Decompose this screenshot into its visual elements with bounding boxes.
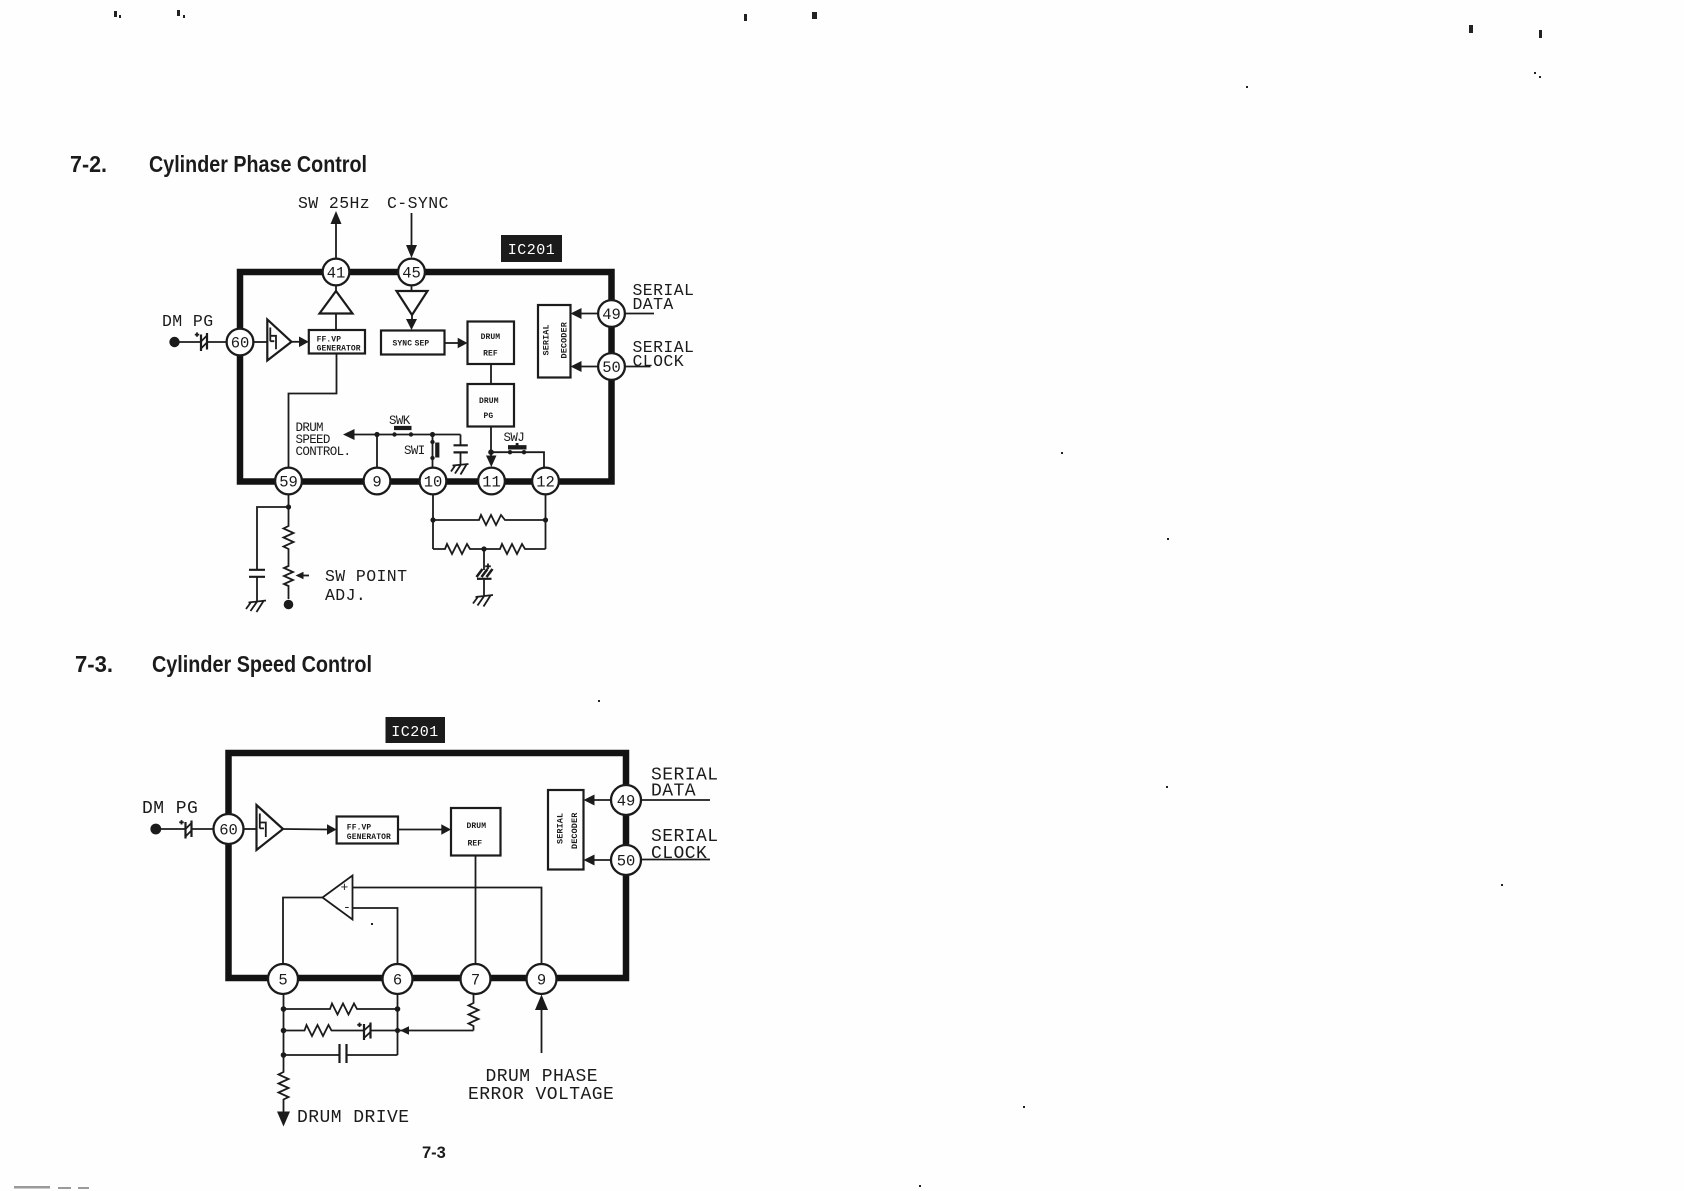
svg-text:49: 49: [602, 306, 621, 324]
capacitor (pin59 branch): [249, 570, 265, 577]
svg-text:6: 6: [393, 972, 402, 990]
wire dot to pin 9: [376, 435, 378, 468]
svg-text:SWK: SWK: [389, 414, 411, 428]
switch SWK: [392, 428, 413, 437]
terminal dot DM PG: [169, 337, 179, 347]
wire cap to pin 60: [207, 341, 227, 343]
svg-text:DRUM PHASE: DRUM PHASE: [486, 1067, 599, 1087]
arrow into FF.VP generator: [327, 824, 337, 835]
junction dot row B center: [481, 546, 486, 551]
wire inverter to sync sep: [411, 315, 413, 322]
svg-text:REF: REF: [468, 840, 483, 849]
pin 60 (d2): [214, 814, 244, 844]
amp A1 (pulse amp): [267, 320, 291, 361]
wire pin5 down: [283, 993, 285, 1055]
pin 7: [461, 964, 491, 994]
wire pin60 to amp A2: [243, 828, 257, 830]
pot wiper arrow: [301, 575, 309, 577]
switch SWJ: [491, 443, 544, 467]
wire pin50 to serial decoder: [591, 859, 612, 861]
block SERIAL DECODER (vertical text): [548, 790, 584, 870]
svg-text:7: 7: [471, 972, 480, 990]
pin 41: [323, 259, 350, 286]
amp A2 (pulse amp): [257, 805, 284, 850]
pin 60: [227, 329, 254, 356]
wire FF.VP to DRUM REF: [398, 829, 443, 831]
junction dot row A right: [543, 517, 548, 522]
svg-text:FF.VP: FF.VP: [347, 824, 372, 833]
svg-text:SYNC: SYNC: [393, 340, 413, 349]
svg-text:DM PG: DM PG: [162, 312, 214, 331]
junction dot row3 left: [281, 1052, 287, 1058]
wire DRUM PHASE ERROR VOLTAGE to pin9: [541, 1008, 543, 1053]
wire pin41 to buffer: [335, 286, 337, 292]
svg-text:SW 25Hz: SW 25Hz: [298, 194, 370, 213]
pin 49 (d2): [611, 785, 641, 815]
svg-text:GENERATOR: GENERATOR: [347, 833, 391, 842]
svg-text:45: 45: [402, 265, 421, 283]
switch SWI (vertical): [430, 435, 437, 468]
svg-text:9: 9: [537, 972, 546, 990]
pin 11: [478, 468, 505, 495]
svg-text:DATA: DATA: [651, 782, 696, 802]
arrow into SYNC SEP: [406, 319, 417, 330]
net SERIAL DATA stub: [625, 313, 654, 315]
pin 9 (d2): [527, 964, 557, 994]
svg-text:DECODER: DECODER: [560, 321, 570, 358]
block SERIAL DECODER (vertical text): [538, 305, 571, 378]
wire cap to ground: [483, 579, 485, 596]
svg-text:CLOCK: CLOCK: [651, 844, 707, 864]
svg-text:Cylinder Phase Control: Cylinder Phase Control: [149, 151, 367, 177]
svg-text:DRUM: DRUM: [479, 397, 499, 406]
wire pin41 to SW 25Hz: [335, 222, 337, 258]
IC201 name plate: [501, 235, 562, 262]
IC201 outline (IC body): [229, 753, 627, 978]
wire pin50 to serial decoder: [578, 366, 598, 368]
junction dot pin11 node: [488, 449, 494, 455]
pin 10: [420, 468, 447, 495]
svg-text:5: 5: [278, 972, 287, 990]
svg-text:SERIAL: SERIAL: [556, 813, 566, 844]
ground (pin59 cap): [246, 601, 266, 613]
row B wire with resistor R (left): [433, 544, 484, 554]
wire DRUM REF to pin 7: [475, 856, 477, 966]
svg-text:PG: PG: [484, 412, 494, 421]
block DRUM REF: [468, 322, 515, 365]
capacitor C (coupling, polarized): [179, 820, 191, 838]
wire op-amp output to pin 5: [283, 898, 323, 966]
arrow down DRUM DRIVE: [277, 1112, 290, 1127]
svg-text:IC201: IC201: [508, 242, 556, 259]
svg-text:DRUM: DRUM: [467, 822, 487, 831]
op-amp U1: [323, 876, 353, 920]
arrow down into pin45: [406, 245, 417, 258]
capacitor C (coupling, polarized): [195, 332, 207, 351]
svg-text:SWJ: SWJ: [504, 431, 525, 445]
net SERIAL CLOCK stub: [641, 859, 710, 861]
IC201 name plate: [386, 717, 446, 743]
block SYNC SEP: [381, 331, 445, 355]
arrow into pin6 net (row2): [400, 1026, 409, 1034]
svg-text:Cylinder Speed Control: Cylinder Speed Control: [152, 651, 372, 677]
resistor R (drum drive) vertical: [279, 1070, 289, 1112]
svg-text:SWI: SWI: [404, 444, 425, 458]
svg-text:DECODER: DECODER: [570, 812, 580, 849]
svg-text:ADJ.: ADJ.: [325, 586, 366, 605]
terminal dot DM PG: [150, 824, 161, 835]
wire pin10 down: [432, 495, 434, 550]
wire pin45 to inverter: [411, 286, 413, 292]
wire pin49 to serial decoder: [578, 313, 598, 315]
row2 wire to pin7 branch: [371, 1030, 474, 1032]
row A wire + resistor R (10-12): [433, 515, 547, 525]
svg-text:7-3.: 7-3.: [75, 651, 113, 677]
wire DRUM PG to node: [490, 427, 492, 453]
wire FF.VP gen down to pin59: [289, 354, 337, 468]
waveform glyph inside A1: [270, 328, 276, 350]
block DRUM PG: [468, 384, 515, 427]
arrow into decoder (data): [584, 795, 595, 806]
junction dot row2 left: [281, 1028, 287, 1034]
pin 49: [598, 300, 625, 327]
svg-text:50: 50: [617, 853, 636, 871]
svg-text:ERROR VOLTAGE: ERROR VOLTAGE: [468, 1085, 614, 1105]
resistor R (pin59) vertical: [284, 524, 294, 562]
junction dot SWI branch: [430, 432, 435, 437]
wire op-amp + input from pin 9: [353, 888, 542, 966]
row2 trimmer capacitor (+): [357, 1023, 370, 1041]
svg-text:-: -: [343, 900, 350, 915]
svg-text:10: 10: [424, 474, 443, 492]
svg-text:9: 9: [372, 474, 381, 492]
waveform glyph inside A2: [260, 814, 266, 838]
potentiometer SW POINT ADJ: [284, 562, 293, 599]
svg-text:59: 59: [279, 474, 298, 492]
junction dot at pin9 branch: [374, 432, 379, 437]
pin 6: [383, 964, 413, 994]
wire SYNC SEP to DRUM REF: [445, 342, 460, 344]
arrow into FF.VP generator: [299, 337, 309, 348]
row2 resistor R: [284, 1025, 365, 1036]
svg-text:FF.VP: FF.VP: [317, 336, 342, 345]
pin 50 (d2): [611, 845, 641, 875]
block FF.VP GENERATOR: [309, 330, 365, 354]
wire cap to pin 60: [192, 828, 215, 830]
junction dot row1 left: [281, 1006, 287, 1012]
row3 wire + capacitor C: [284, 1044, 398, 1063]
svg-text:CLOCK: CLOCK: [633, 352, 685, 371]
wire DRUM REF to DRUM PG: [490, 364, 492, 384]
wire to left cap branch: [257, 507, 289, 570]
svg-text:12: 12: [536, 474, 555, 492]
arrow into pin 11: [490, 452, 492, 458]
svg-text:+: +: [341, 880, 349, 895]
pin 59: [275, 468, 302, 495]
svg-text:11: 11: [482, 474, 501, 492]
svg-text:60: 60: [231, 335, 250, 353]
junction dot row2/pin6: [395, 1028, 400, 1033]
arrow left (drum speed control): [343, 429, 355, 440]
svg-text:SEP: SEP: [415, 340, 430, 349]
row1 wire + resistor R: [284, 1004, 398, 1015]
wire pin60 to amp A1: [254, 341, 268, 343]
terminal dot below pot: [284, 600, 294, 610]
pin 9: [364, 468, 391, 495]
svg-text:GENERATOR: GENERATOR: [317, 345, 361, 354]
wire C-SYNC to pin45: [411, 213, 413, 248]
wire DM PG to coupling cap: [180, 341, 201, 343]
pin 12: [532, 468, 559, 495]
svg-text:41: 41: [327, 265, 346, 283]
svg-text:C-SYNC: C-SYNC: [387, 194, 449, 213]
wire pin5 net down to resistor: [283, 1055, 285, 1070]
wire node to electrolytic cap: [483, 549, 485, 570]
ground (electrolytic): [473, 595, 493, 607]
capacitor C electrolytic (+): [477, 564, 493, 579]
wire pin59 down: [288, 495, 290, 525]
svg-text:REF: REF: [483, 350, 498, 359]
junction dot row1 right: [395, 1006, 401, 1012]
buffer amp (up) under pin 41: [320, 291, 353, 314]
svg-text:DATA: DATA: [633, 295, 674, 314]
arrow into decoder (clock): [584, 855, 595, 866]
junction dot pin10 row A: [430, 517, 435, 522]
wire pin12 down: [545, 495, 547, 550]
svg-text:7-2.: 7-2.: [70, 151, 107, 177]
svg-text:CONTROL.: CONTROL.: [296, 445, 351, 459]
block DRUM REF: [451, 808, 501, 856]
svg-text:DM PG: DM PG: [142, 799, 198, 819]
svg-text:49: 49: [617, 793, 636, 811]
wire buffer to FF.VP generator top: [335, 314, 337, 331]
junction dot below pin59: [286, 504, 291, 509]
svg-text:DRUM DRIVE: DRUM DRIVE: [297, 1108, 410, 1128]
svg-text:60: 60: [219, 822, 238, 840]
row B resistor R (right): [484, 544, 546, 554]
arrow into decoder (data): [571, 308, 582, 319]
wire DM PG to coupling cap: [161, 828, 185, 830]
bottom-left scan smudge: [14, 1186, 89, 1189]
arrow into DRUM REF: [441, 824, 451, 835]
net SERIAL CLOCK stub: [626, 366, 651, 368]
pin 50: [598, 353, 625, 380]
arrow into DRUM REF: [458, 338, 468, 349]
svg-text:50: 50: [602, 359, 621, 377]
svg-text:SERIAL: SERIAL: [542, 324, 552, 355]
net SERIAL DATA stub: [641, 799, 710, 801]
capacitor at SWK node: [454, 435, 468, 465]
wire amp A1 to FF.VP generator: [292, 341, 301, 343]
wire op-amp - input from pin 6: [353, 908, 398, 965]
wire pin49 to serial decoder: [591, 799, 612, 801]
ground (SWK cap): [451, 464, 469, 475]
wire cap to ground: [256, 577, 258, 601]
arrow into decoder (clock): [571, 361, 582, 372]
block FF.VP GENERATOR: [337, 817, 398, 844]
svg-text:SW POINT: SW POINT: [325, 567, 407, 586]
wire amp A2 to FF.VP generator: [283, 828, 329, 831]
wire pin6 down: [397, 993, 399, 1055]
resistor R pin7 vertical: [469, 993, 479, 1031]
arrow up SW 25Hz: [331, 211, 342, 224]
svg-text:IC201: IC201: [391, 724, 439, 741]
svg-text:DRUM: DRUM: [481, 333, 501, 342]
IC201 outline (IC body): [240, 272, 612, 482]
inverter amp (down) under pin 45: [397, 291, 428, 315]
arrow up into pin 9: [535, 995, 548, 1011]
svg-text:7-3: 7-3: [422, 1144, 446, 1162]
pin 5: [268, 964, 298, 994]
wire SWK row: [353, 434, 461, 436]
pin 45: [398, 259, 425, 286]
